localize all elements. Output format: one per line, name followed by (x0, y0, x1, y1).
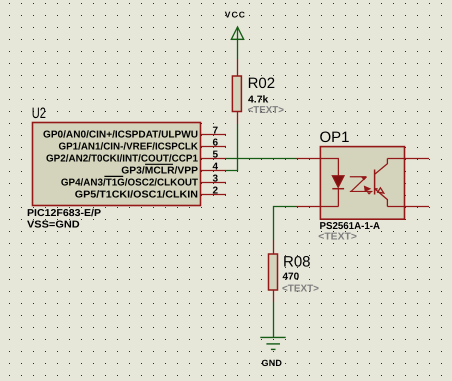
svg-text:PIC12F683-E/P: PIC12F683-E/P (27, 208, 101, 219)
pin 6 (201, 146, 227, 148)
svg-text:U2: U2 (32, 105, 46, 122)
pin 7 (201, 134, 227, 136)
wire VCC to R02 (upper pin stub red) (237, 59, 239, 76)
optocoupler OP1 body (320, 147, 404, 220)
OP1 pin anode (left top) (297, 158, 339, 160)
svg-text:5: 5 (212, 149, 218, 160)
svg-text:6: 6 (212, 137, 218, 148)
svg-text:3: 3 (212, 173, 218, 184)
wire R02 bottom to pin4 corner (226, 124, 238, 171)
OP1 pin collector (right top) (387, 158, 429, 160)
OP1 light arrows (350, 177, 373, 195)
pin 3 (201, 182, 227, 184)
OP1 LED (332, 159, 344, 207)
svg-text:470: 470 (283, 272, 300, 283)
svg-text:R08: R08 (283, 253, 311, 270)
svg-text:VCC: VCC (225, 10, 246, 20)
pin 5 (201, 158, 227, 160)
OP1 pin emitter (right bottom) (387, 206, 429, 208)
ground (260, 337, 285, 349)
svg-text:GP1/AN1/CIN-/VREF/ICSPCLK: GP1/AN1/CIN-/VREF/ICSPCLK (59, 142, 199, 153)
svg-text:7: 7 (212, 125, 218, 136)
svg-text:GP3/MCLR/VPP: GP3/MCLR/VPP (121, 166, 198, 177)
OP1 pin cathode (left bottom) (297, 206, 339, 208)
OP1 phototransistor (375, 159, 388, 207)
svg-text:GP0/AN0/CIN+/ICSPDAT/ULPWU: GP0/AN0/CIN+/ICSPDAT/ULPWU (43, 130, 198, 141)
resistor R02 (232, 76, 241, 124)
pin 2 (201, 194, 227, 196)
power VCC (231, 27, 244, 59)
svg-text:GP2/AN2/T0CKI/INT/COUT/CCP1: GP2/AN2/T0CKI/INT/COUT/CCP1 (46, 154, 198, 165)
svg-text:<TEXT>: <TEXT> (318, 231, 357, 242)
svg-text:2: 2 (212, 185, 218, 196)
svg-text:<TEXT>: <TEXT> (248, 105, 284, 116)
svg-text:GP4/AN3/T1G/OSC2/CLKOUT: GP4/AN3/T1G/OSC2/CLKOUT (61, 178, 198, 189)
svg-text:OP1: OP1 (320, 129, 350, 146)
svg-text:GP5/T1CKI/OSC1/CLKIN: GP5/T1CKI/OSC1/CLKIN (75, 190, 198, 201)
resistor R08 (269, 240, 278, 302)
svg-text:R02: R02 (248, 75, 276, 92)
wire R08 to ground (273, 302, 275, 337)
svg-text:VSS=GND: VSS=GND (27, 219, 80, 230)
pin 4 (201, 170, 227, 172)
svg-text:4: 4 (212, 161, 218, 172)
chip U2 body (33, 123, 201, 206)
wire OP1 cathode to R08 (274, 207, 297, 241)
svg-text:GND: GND (262, 358, 283, 368)
svg-text:<TEXT>: <TEXT> (282, 284, 319, 295)
wire U2 pin5 to OP1 anode (226, 158, 297, 160)
